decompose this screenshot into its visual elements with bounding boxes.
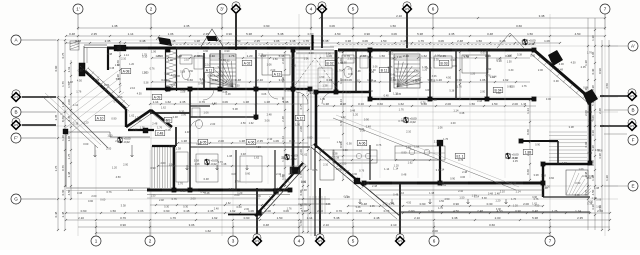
grid line A [22, 39, 330, 41]
grid bubble 2 top [146, 4, 156, 14]
section marker B left [11, 90, 22, 103]
svg-text:0.48: 0.48 [488, 192, 494, 196]
svg-text:1.62: 1.62 [421, 54, 427, 58]
roof overhang diagonal [333, 118, 516, 190]
svg-text:1.06: 1.06 [256, 195, 261, 198]
svg-text:2.48: 2.48 [222, 91, 227, 94]
right dimension line 3 [601, 40, 603, 231]
walkway steps [298, 198, 330, 200]
svg-text:1.20: 1.20 [83, 120, 89, 124]
svg-text:4.50: 4.50 [335, 32, 341, 36]
svg-text:1.76: 1.76 [302, 204, 307, 207]
room label [357, 140, 367, 145]
room slope arrow [216, 165, 219, 170]
svg-text:1.20: 1.20 [605, 175, 609, 181]
svg-text:0.60: 0.60 [197, 54, 203, 58]
svg-text:2: 2 [150, 7, 153, 12]
svg-text:1.38: 1.38 [472, 195, 477, 198]
svg-text:5.38: 5.38 [482, 197, 487, 200]
svg-text:4.50: 4.50 [67, 189, 71, 195]
svg-text:A 13: A 13 [274, 72, 281, 76]
svg-text:0.76: 0.76 [583, 86, 589, 90]
terrace slope arrow [359, 199, 362, 204]
window left house south 3 [240, 188, 274, 190]
svg-text:2.48: 2.48 [152, 122, 158, 126]
svg-text:0.76: 0.76 [359, 168, 365, 172]
skylight black marker [158, 37, 172, 46]
section marker bottom-center [315, 234, 326, 247]
svg-text:2.10: 2.10 [323, 162, 329, 166]
svg-text:4.50: 4.50 [165, 79, 171, 83]
center vertical dim string 1 [302, 94, 304, 233]
svg-text:4.50: 4.50 [586, 176, 592, 180]
svg-text:1.50: 1.50 [368, 90, 373, 93]
svg-text:1.76: 1.76 [522, 84, 528, 88]
svg-text:1.14: 1.14 [153, 100, 159, 104]
window left house south 2 [223, 188, 237, 190]
north-east diagonal hatch band [531, 51, 592, 105]
svg-text:2.48: 2.48 [558, 68, 564, 72]
svg-text:0.30: 0.30 [348, 72, 354, 76]
svg-text:-0,02: -0,02 [409, 120, 416, 124]
svg-text:5.38: 5.38 [279, 54, 285, 58]
svg-text:0.30: 0.30 [171, 73, 177, 77]
svg-text:1.06: 1.06 [335, 167, 341, 171]
svg-text:2.48: 2.48 [281, 116, 285, 122]
stair band post [354, 178, 360, 184]
step diagonal continuation [364, 186, 400, 216]
svg-text:1.20: 1.20 [394, 164, 400, 168]
svg-text:0.30: 0.30 [209, 54, 215, 58]
svg-text:3.06: 3.06 [595, 148, 601, 152]
svg-text:0.76: 0.76 [312, 168, 318, 172]
floor level mark [118, 137, 122, 143]
porch roof dashed triangle [293, 58, 337, 88]
pergola stair band left (diagonal down-left) [255, 163, 303, 216]
svg-text:1.14: 1.14 [414, 144, 420, 148]
svg-text:2.48: 2.48 [372, 184, 378, 188]
right house south wall [364, 182, 543, 185]
svg-text:4.50: 4.50 [406, 201, 411, 204]
svg-text:0.30: 0.30 [346, 91, 351, 94]
svg-text:0.76: 0.76 [384, 209, 390, 213]
partition y106 [190, 105, 210, 107]
svg-text:4: 4 [298, 239, 301, 244]
svg-text:1': 1' [76, 7, 80, 12]
svg-text:1.06: 1.06 [267, 63, 273, 67]
svg-text:1.50: 1.50 [390, 24, 396, 28]
terrace slope arrow [505, 199, 508, 204]
svg-text:1.20: 1.20 [247, 54, 253, 58]
svg-text:1.06: 1.06 [117, 95, 123, 99]
svg-text:0.48: 0.48 [361, 202, 367, 206]
svg-text:2.10: 2.10 [130, 86, 136, 90]
svg-text:3.06: 3.06 [425, 89, 430, 92]
svg-text:1.76: 1.76 [587, 51, 593, 55]
svg-text:0.90: 0.90 [486, 67, 492, 71]
svg-text:2.35: 2.35 [54, 114, 58, 120]
svg-text:3.06: 3.06 [460, 175, 466, 179]
window right house north 3 [490, 48, 505, 50]
svg-text:1.62: 1.62 [165, 100, 171, 104]
room slope arrow [186, 165, 189, 170]
svg-text:0.90: 0.90 [120, 223, 126, 227]
chimney hatch block [70, 41, 79, 50]
svg-text:2.35: 2.35 [156, 55, 161, 58]
svg-text:3.38: 3.38 [326, 78, 332, 82]
svg-text:1.20: 1.20 [353, 112, 359, 116]
svg-text:1.14: 1.14 [384, 167, 390, 171]
kitchen partition x370 [369, 145, 371, 180]
svg-text:1.14: 1.14 [307, 216, 313, 220]
svg-text:0.76: 0.76 [299, 103, 303, 109]
svg-text:2.00: 2.00 [451, 121, 457, 125]
partition y147 [190, 146, 310, 148]
bottom dimension line 6 right [347, 205, 544, 207]
svg-text:0.60: 0.60 [301, 180, 307, 184]
grid bubble F' left [11, 133, 21, 143]
svg-text:1.06: 1.06 [435, 54, 441, 58]
svg-text:5.38: 5.38 [180, 70, 185, 73]
svg-text:5.38: 5.38 [278, 32, 284, 36]
svg-text:1.76: 1.76 [67, 153, 71, 159]
interior dim row left house y82 [151, 81, 308, 83]
svg-text:3.38: 3.38 [539, 14, 545, 18]
svg-text:5.38: 5.38 [233, 107, 239, 111]
svg-text:2.48: 2.48 [61, 211, 65, 217]
svg-text:5.38: 5.38 [513, 156, 519, 160]
grid line G [22, 198, 618, 200]
svg-text:A': A' [631, 44, 635, 49]
partition x190 [189, 89, 191, 190]
svg-text:0.60: 0.60 [83, 142, 89, 146]
svg-text:4.50: 4.50 [575, 32, 581, 36]
svg-text:5.38: 5.38 [164, 71, 170, 75]
left dimension line 1 [57, 39, 59, 231]
bottom dimension line 4 [95, 232, 551, 234]
section marker F right [627, 119, 638, 132]
svg-text:3.06: 3.06 [432, 75, 437, 78]
svg-text:0.48: 0.48 [54, 211, 58, 217]
svg-text:W3: W3 [14, 123, 18, 127]
svg-text:3.06: 3.06 [264, 119, 270, 123]
svg-text:0.30: 0.30 [591, 130, 595, 136]
south terrace lines right house [370, 189, 543, 191]
living SE wall y141 [521, 140, 558, 142]
svg-text:W3: W3 [398, 239, 402, 243]
svg-text:2.35: 2.35 [370, 205, 375, 208]
entry doors [296, 92, 308, 104]
svg-text:2.48: 2.48 [477, 209, 483, 213]
svg-text:2.35: 2.35 [180, 189, 186, 193]
svg-text:1.76: 1.76 [287, 208, 292, 211]
NE bay column 1 [548, 50, 563, 66]
svg-text:0.48: 0.48 [427, 67, 432, 70]
svg-text:1.14: 1.14 [515, 189, 521, 193]
svg-text:1.38: 1.38 [322, 83, 328, 87]
svg-text:0.48: 0.48 [432, 98, 438, 102]
svg-text:1.38: 1.38 [591, 35, 595, 41]
svg-text:W3: W3 [320, 7, 324, 11]
svg-text:0.90: 0.90 [453, 202, 459, 206]
svg-text:2.48: 2.48 [462, 170, 468, 174]
svg-text:0.48: 0.48 [487, 32, 493, 36]
svg-text:0.30: 0.30 [591, 68, 595, 74]
svg-text:1.76: 1.76 [54, 165, 58, 171]
svg-text:1.62: 1.62 [230, 209, 236, 213]
svg-text:0.76: 0.76 [104, 83, 110, 87]
svg-text:1.38: 1.38 [115, 64, 120, 67]
svg-text:5.38: 5.38 [229, 187, 235, 191]
svg-text:0.60: 0.60 [100, 197, 106, 201]
svg-text:1.38: 1.38 [194, 162, 200, 166]
section cut bar above porch [311, 35, 313, 50]
svg-text:4.50: 4.50 [116, 175, 122, 179]
svg-text:W3: W3 [234, 7, 238, 11]
left dimension line 3 [70, 60, 72, 200]
svg-text:0.60: 0.60 [549, 176, 555, 180]
svg-text:1.38: 1.38 [264, 100, 270, 104]
svg-text:1.62: 1.62 [212, 78, 218, 82]
svg-text:0.48: 0.48 [241, 152, 247, 156]
svg-text:0.90: 0.90 [364, 118, 370, 122]
west diagonal hatch band [86, 67, 130, 108]
svg-text:0.90: 0.90 [226, 32, 232, 36]
svg-text:1.38: 1.38 [584, 60, 588, 66]
svg-text:0.90: 0.90 [200, 190, 206, 194]
svg-text:2.10: 2.10 [78, 216, 84, 220]
svg-text:5.38: 5.38 [496, 59, 502, 63]
svg-text:0.60: 0.60 [526, 169, 530, 175]
door swing arcs left house [203, 89, 214, 100]
svg-text:0.90: 0.90 [224, 49, 230, 53]
svg-text:0.48: 0.48 [165, 128, 171, 132]
porch floor tile hatch [296, 54, 334, 90]
svg-text:0.30: 0.30 [509, 69, 514, 72]
svg-text:1.14: 1.14 [453, 108, 459, 112]
west terrace lower diagonal [58, 98, 108, 148]
svg-text:5.38: 5.38 [116, 78, 121, 81]
svg-text:1.50: 1.50 [507, 60, 512, 63]
room label [155, 130, 165, 135]
svg-text:0.60: 0.60 [489, 223, 495, 227]
west chevron wall right [151, 110, 172, 127]
svg-text:1.50: 1.50 [107, 133, 113, 137]
svg-text:1.76: 1.76 [399, 107, 405, 111]
island hob [365, 153, 370, 158]
window left house north 1 [209, 46, 228, 48]
svg-text:0.90: 0.90 [364, 32, 370, 36]
svg-text:3.06: 3.06 [397, 56, 402, 59]
svg-text:1.76: 1.76 [61, 81, 65, 87]
svg-text:5.38: 5.38 [107, 52, 113, 56]
svg-text:3.38: 3.38 [334, 155, 340, 159]
svg-text:0.48: 0.48 [302, 188, 308, 192]
svg-text:3.38: 3.38 [598, 153, 602, 159]
svg-text:1.20: 1.20 [470, 72, 475, 75]
floor level mark [404, 117, 408, 123]
svg-text:0.60: 0.60 [245, 172, 251, 176]
svg-text:0.48: 0.48 [401, 39, 407, 43]
svg-text:2.35: 2.35 [184, 24, 190, 28]
svg-text:1.62: 1.62 [225, 59, 231, 63]
grid line E [380, 185, 618, 187]
bathroom fixtures right house [342, 55, 354, 63]
grid line B section [22, 96, 618, 98]
floor level mark [523, 39, 527, 45]
svg-text:2.00: 2.00 [523, 202, 529, 206]
svg-text:1.06: 1.06 [544, 39, 550, 43]
garage-house insulated wall band [165, 48, 167, 91]
svg-text:1.76: 1.76 [364, 182, 370, 186]
bathroom fixtures left house [180, 55, 192, 64]
partition x176 [175, 127, 177, 146]
svg-text:3.38: 3.38 [274, 189, 280, 193]
svg-text:2.10: 2.10 [434, 139, 440, 143]
svg-text:W3: W3 [318, 239, 322, 243]
room label [242, 60, 252, 65]
right house north wall [338, 49, 534, 52]
grid bubble F right [628, 135, 638, 145]
right house east wall [589, 100, 592, 163]
svg-text:0.48: 0.48 [204, 177, 210, 181]
svg-text:1.62: 1.62 [67, 66, 71, 72]
svg-text:1.14: 1.14 [124, 53, 130, 57]
svg-text:3.06: 3.06 [189, 223, 195, 227]
svg-text:5.38: 5.38 [417, 32, 423, 36]
svg-text:2.35: 2.35 [203, 32, 209, 36]
svg-text:1.06: 1.06 [304, 57, 310, 61]
partition y117 [190, 116, 256, 118]
svg-text:1.76: 1.76 [457, 85, 463, 89]
svg-text:0.76: 0.76 [120, 216, 126, 220]
svg-text:3.06: 3.06 [391, 32, 397, 36]
NE bay column 2 [583, 89, 598, 105]
svg-text:0.90: 0.90 [575, 181, 581, 185]
svg-text:1.20: 1.20 [513, 204, 519, 208]
svg-text:1.76: 1.76 [438, 207, 443, 210]
svg-text:3.06: 3.06 [507, 54, 512, 57]
SE corner planter hatch [566, 170, 588, 195]
svg-text:1.62: 1.62 [302, 153, 308, 157]
party wall gap line [310, 92, 312, 170]
svg-text:2.35: 2.35 [91, 32, 97, 36]
svg-text:1.76: 1.76 [394, 69, 399, 72]
svg-text:0.76: 0.76 [172, 197, 178, 201]
svg-text:1.50: 1.50 [464, 55, 470, 59]
svg-text:3.38: 3.38 [309, 88, 315, 92]
svg-text:7: 7 [604, 7, 607, 12]
west bay diagonal wall [85, 71, 126, 109]
svg-text:0.48: 0.48 [356, 209, 362, 213]
terrace slope arrow [467, 199, 470, 204]
room label [121, 68, 131, 73]
bath south wall y113 [150, 112, 190, 114]
top dimension line 4 [65, 42, 561, 44]
svg-text:0.48: 0.48 [401, 172, 407, 176]
svg-text:-0,02: -0,02 [290, 157, 297, 161]
bubble leader lines [77, 14, 79, 30]
svg-text:2.00: 2.00 [123, 163, 129, 167]
svg-text:2.10: 2.10 [403, 54, 409, 58]
svg-text:0.60: 0.60 [187, 78, 193, 82]
svg-text:3': 3' [220, 7, 224, 12]
top dimension line 2 [77, 27, 606, 29]
partition x390 [389, 50, 391, 92]
grid bubble 3 bottom [228, 236, 238, 246]
svg-text:1.38: 1.38 [521, 102, 527, 106]
svg-text:2.10: 2.10 [414, 216, 420, 220]
svg-text:2.48: 2.48 [185, 130, 191, 134]
grid bubble 1 bottom [91, 236, 101, 246]
svg-text:2.00: 2.00 [432, 229, 438, 233]
svg-text:1.62: 1.62 [503, 78, 509, 82]
svg-text:2.00: 2.00 [190, 196, 196, 200]
svg-text:0.76: 0.76 [376, 143, 382, 147]
east deck hatch [549, 132, 587, 161]
svg-text:0.76: 0.76 [219, 75, 224, 78]
svg-text:1.76: 1.76 [303, 39, 309, 43]
partition x370 [369, 50, 371, 99]
svg-text:2.35: 2.35 [434, 57, 440, 61]
svg-text:1.14: 1.14 [281, 136, 285, 142]
svg-text:0.48: 0.48 [575, 193, 581, 197]
svg-text:2.10: 2.10 [396, 14, 402, 18]
svg-text:0.76: 0.76 [548, 61, 554, 65]
svg-text:2.48: 2.48 [374, 216, 380, 220]
svg-text:F': F' [14, 136, 18, 141]
svg-text:W3: W3 [405, 7, 409, 11]
counter edge line [395, 152, 445, 154]
svg-text:3.38: 3.38 [109, 67, 114, 70]
svg-text:1: 1 [95, 239, 98, 244]
section line F right [600, 125, 627, 127]
svg-text:2.48: 2.48 [267, 112, 273, 116]
svg-text:3.38: 3.38 [541, 174, 547, 178]
svg-text:0.90: 0.90 [54, 65, 58, 71]
svg-text:1.50: 1.50 [476, 39, 482, 43]
svg-text:1.06: 1.06 [170, 83, 176, 87]
svg-text:2.35: 2.35 [180, 100, 186, 104]
svg-text:5.38: 5.38 [246, 32, 252, 36]
svg-text:1.62: 1.62 [254, 155, 260, 159]
svg-text:3.38: 3.38 [459, 111, 465, 115]
svg-text:1.76: 1.76 [259, 188, 265, 192]
svg-text:2.10: 2.10 [406, 130, 412, 134]
svg-text:1.20: 1.20 [495, 198, 501, 202]
partition x456 [455, 50, 457, 99]
porch west wall [292, 50, 295, 92]
svg-text:0.30: 0.30 [142, 54, 148, 58]
svg-text:3.06: 3.06 [596, 198, 602, 202]
svg-text:1.50: 1.50 [342, 61, 347, 64]
svg-text:4.50: 4.50 [212, 102, 218, 106]
north-west gable triangle [200, 29, 224, 48]
svg-text:0.48: 0.48 [350, 109, 356, 113]
svg-text:0.60: 0.60 [180, 88, 186, 92]
svg-text:3.38: 3.38 [533, 173, 539, 177]
south-west vertical wall [173, 146, 175, 190]
room label [379, 67, 389, 72]
svg-text:0.48: 0.48 [140, 39, 146, 43]
svg-text:2.00: 2.00 [559, 62, 565, 66]
svg-text:2.00: 2.00 [270, 69, 275, 72]
room label [325, 60, 335, 65]
svg-text:5.38: 5.38 [144, 82, 149, 85]
svg-text:0.60: 0.60 [203, 49, 209, 53]
svg-text:0.90: 0.90 [150, 166, 156, 170]
svg-text:0.90: 0.90 [78, 69, 84, 73]
